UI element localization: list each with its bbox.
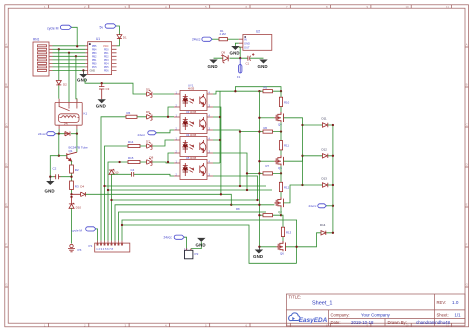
diode D4 <box>72 192 86 196</box>
net flag 24vcc (P2) <box>164 235 185 240</box>
resistor R2 <box>70 165 74 173</box>
svg-text:F1: F1 <box>237 75 241 79</box>
wire opto1 pin2 drop <box>168 107 174 117</box>
junction C3 <box>101 82 103 84</box>
diode D7 <box>147 142 153 149</box>
svg-text:EasyEDA: EasyEDA <box>299 317 328 324</box>
svg-text:R11: R11 <box>284 144 289 148</box>
svg-text:D6: D6 <box>146 110 150 114</box>
svg-text:D10: D10 <box>114 170 119 174</box>
wire cycle M to P1 pin1 <box>96 229 98 241</box>
svg-text:G: G <box>5 283 7 287</box>
IC U1 <box>85 42 116 75</box>
svg-text:D12: D12 <box>322 147 328 151</box>
svg-text:IN: IN <box>244 37 247 41</box>
diode D13 <box>323 183 328 187</box>
svg-text:PD6: PD6 <box>104 70 109 72</box>
net flag cycle M (top) <box>47 25 72 30</box>
wire R14 to D7 <box>140 140 174 146</box>
svg-text:D: D <box>5 163 7 167</box>
wire opto3 pin3 to gate2 column <box>213 153 247 190</box>
wire drops to relay <box>59 49 77 102</box>
junction rail 220 <box>219 116 221 118</box>
wire R6b row <box>240 131 281 133</box>
wire Q4 gate <box>259 117 274 119</box>
wire D13 anode <box>303 184 323 186</box>
svg-text:D4: D4 <box>80 185 84 189</box>
anode collector rail <box>302 125 304 185</box>
wire D11 anode <box>303 124 323 126</box>
svg-text:D: D <box>466 163 468 167</box>
wire U1 gnd to C3 rail <box>85 79 174 94</box>
wire relay coil to D3 row <box>56 129 77 134</box>
svg-text:B: B <box>5 83 7 87</box>
svg-text:1/1: 1/1 <box>455 312 462 317</box>
junction row3 <box>68 52 70 54</box>
svg-text:Q5: Q5 <box>278 166 282 170</box>
svg-text:2019-10-18: 2019-10-18 <box>351 320 374 325</box>
wire Q4 drain to D11 <box>284 118 303 125</box>
svg-text:A: A <box>466 43 468 47</box>
junction R5 <box>258 90 260 92</box>
ground Q6 <box>253 247 263 259</box>
frame ticks top/bottom <box>49 5 452 8</box>
svg-text:GND: GND <box>90 70 96 73</box>
svg-text:PD0: PD0 <box>104 49 109 51</box>
wire flag to R1 <box>212 38 219 40</box>
svg-text:R13: R13 <box>286 230 292 234</box>
resistor R15 <box>128 160 140 163</box>
svg-text:PD1: PD1 <box>104 53 109 55</box>
svg-text:F: F <box>5 243 7 247</box>
wire P1 pin5 rail to D16/C4 row <box>111 174 113 240</box>
junction U1 gnd row8 <box>82 69 84 71</box>
wire RN1 to U1 rows <box>53 46 86 71</box>
svg-text:A: A <box>5 43 7 47</box>
svg-text:P3: P3 <box>78 248 82 252</box>
wire D16 row to C4 <box>112 174 175 176</box>
svg-text:C3: C3 <box>106 87 110 91</box>
transistor Q4 <box>274 112 283 122</box>
svg-text:PB3: PB3 <box>92 53 97 55</box>
svg-text:RN1: RN1 <box>33 38 40 42</box>
wire Q5 drain to D12 <box>284 156 303 161</box>
wire P1 pin3 rail to R14 row <box>105 146 129 241</box>
svg-text:D9: D9 <box>222 51 226 55</box>
svg-text:D7: D7 <box>146 139 150 143</box>
svg-text:D8: D8 <box>150 155 154 159</box>
svg-text:Your Company: Your Company <box>361 312 391 317</box>
junction opto1 pin2 <box>167 116 169 118</box>
svg-text:R14: R14 <box>128 140 134 144</box>
transistor Q5 <box>274 155 283 165</box>
header P2 <box>184 248 199 259</box>
net flag cycle M (bottom) <box>72 227 96 233</box>
wire Q6 drain right <box>286 233 335 247</box>
junction row4 <box>75 55 77 57</box>
wire R6 to D6 <box>137 116 174 118</box>
svg-text:GND: GND <box>244 41 250 45</box>
svg-text:PD5: PD5 <box>104 67 109 69</box>
svg-text:C1: C1 <box>246 62 250 66</box>
junction C2 left <box>49 176 51 178</box>
junction C1 row <box>239 57 241 59</box>
wire flag to P2 pin1 <box>184 237 186 248</box>
svg-text:U1: U1 <box>96 37 100 41</box>
junction row2 <box>58 48 60 50</box>
svg-text:PB2: PB2 <box>92 56 97 58</box>
svg-text:Company:: Company: <box>331 312 350 317</box>
net flag 24vcc (relay) <box>38 132 56 137</box>
diode D11 <box>323 123 328 127</box>
net flag 24vcc (opto2) <box>138 131 157 137</box>
resistor R1 <box>219 38 228 41</box>
svg-text:cycle M: cycle M <box>72 228 83 232</box>
svg-text:GND: GND <box>45 189 55 194</box>
svg-text:E: E <box>466 203 468 207</box>
svg-text:R2: R2 <box>75 168 79 172</box>
svg-text:C2: C2 <box>53 166 57 170</box>
transistor Q6 <box>276 241 285 251</box>
svg-text:1 2 3 4 5 6 7 8: 1 2 3 4 5 6 7 8 <box>96 247 113 251</box>
svg-text:E: E <box>5 203 7 207</box>
port P3 <box>68 244 75 252</box>
svg-text:cycle M: cycle M <box>47 27 59 31</box>
wire opto right rail x220 <box>213 91 220 163</box>
wire P2 pin2 to gnd <box>191 242 201 249</box>
diode D1 <box>117 35 122 39</box>
svg-text:10: 10 <box>406 5 410 9</box>
wire U2 gnd pin <box>235 43 238 46</box>
ground P2 <box>196 238 206 248</box>
wire 24vcc to opto2 pin2 <box>156 130 174 133</box>
svg-text:Drawn By:: Drawn By: <box>388 320 407 325</box>
wire U2 out to C1 row <box>214 47 264 58</box>
svg-text:D14: D14 <box>320 223 326 227</box>
svg-text:R7: R7 <box>266 164 270 168</box>
svg-text:11: 11 <box>446 5 449 9</box>
wire Q1 base <box>59 155 67 157</box>
svg-text:R8: R8 <box>236 207 240 211</box>
resistor R11 <box>280 132 282 156</box>
svg-text:24vcc: 24vcc <box>138 133 146 137</box>
svg-text:D2: D2 <box>63 83 67 87</box>
svg-text:5v: 5v <box>100 26 104 30</box>
svg-text:GND: GND <box>196 242 206 247</box>
wire bus row 190 <box>108 189 272 191</box>
resistor R14 <box>128 144 140 147</box>
svg-text:PD4: PD4 <box>104 63 109 65</box>
svg-text:K1: K1 <box>84 112 88 116</box>
capacitor C3 <box>99 83 104 99</box>
svg-text:2.2M: 2.2M <box>220 32 227 36</box>
ground U2 <box>230 46 240 56</box>
wire base to C2 <box>50 156 71 177</box>
svg-text:D10: D10 <box>76 206 82 210</box>
svg-text:C4: C4 <box>131 168 135 172</box>
transistor Q2 <box>274 197 283 207</box>
wire 5v to D1 <box>116 26 119 46</box>
wire Q2 drain to D13 <box>284 185 303 203</box>
svg-text:24vcc: 24vcc <box>309 204 317 208</box>
svg-text:Q4: Q4 <box>278 123 282 127</box>
svg-text:D11: D11 <box>322 117 327 121</box>
capacitor C2 <box>54 174 61 179</box>
diode D8 <box>147 158 153 165</box>
resistor R13 <box>281 215 283 241</box>
resistor R12 <box>280 173 282 197</box>
svg-text:R3: R3 <box>75 185 79 189</box>
optocoupler U5 <box>174 156 213 180</box>
TITLE BLOCK <box>286 294 465 326</box>
resistor R6 <box>126 115 137 118</box>
svg-text:F: F <box>466 243 468 247</box>
resistor R3 <box>70 181 74 190</box>
resistor R8 <box>263 214 273 217</box>
svg-text:R5: R5 <box>264 85 268 89</box>
svg-text:24vcc: 24vcc <box>38 132 46 136</box>
svg-text:P2: P2 <box>195 252 199 256</box>
wire Q2 gate <box>231 204 274 206</box>
svg-text:GND: GND <box>96 104 106 109</box>
ground right of C1 <box>258 60 268 70</box>
relay K1 <box>55 99 82 129</box>
svg-text:PD2: PD2 <box>104 56 109 58</box>
diode D2 <box>56 81 61 85</box>
wire P1 pin2 rail to R6 row <box>101 117 126 241</box>
wire R8 row <box>259 214 281 216</box>
ground left of D9 <box>208 60 218 70</box>
ground under U1 <box>77 70 88 82</box>
svg-text:REV:: REV: <box>437 300 447 305</box>
connector P1 <box>89 241 130 252</box>
wire D3 row drops <box>59 134 77 156</box>
wire Q2 source down <box>280 207 282 215</box>
wire bus row 200 <box>112 199 258 201</box>
svg-text:R10: R10 <box>284 100 290 104</box>
svg-text:Q1: Q1 <box>69 149 73 153</box>
junction on R15 row <box>118 161 120 163</box>
diode D3 <box>65 132 70 136</box>
junction D3 right <box>76 133 78 135</box>
junction row1 cycleM <box>76 45 78 47</box>
svg-text:GND: GND <box>208 64 218 69</box>
wire bus row 225 <box>122 225 297 263</box>
wire opto2 pin3 to gate1 column <box>213 130 240 186</box>
svg-text:4N35: 4N35 <box>188 87 195 91</box>
diode D9 <box>221 55 228 64</box>
diode D14 <box>321 231 326 235</box>
svg-text:TITLE:: TITLE: <box>289 294 302 299</box>
wire bus row 186 <box>105 185 267 187</box>
svg-text:D1: D1 <box>123 36 127 40</box>
svg-text:PD3: PD3 <box>104 60 109 62</box>
zener D10 <box>69 197 74 208</box>
svg-text:Sheet_1: Sheet_1 <box>312 300 333 306</box>
svg-text:chandranindhu48: chandranindhu48 <box>416 320 450 325</box>
wire cycle M to row1 <box>72 27 78 46</box>
svg-text:C: C <box>5 123 7 127</box>
wire Q1 emitter to R2 <box>71 161 73 194</box>
svg-text:Sheet:: Sheet: <box>437 312 449 317</box>
wire R7 row <box>247 172 281 174</box>
wire bus row 220 <box>122 220 297 263</box>
svg-text:GND: GND <box>253 254 263 259</box>
wire R15 to D8 <box>140 162 174 163</box>
ground under C3 <box>96 99 106 109</box>
fuse F1 <box>237 58 242 79</box>
svg-text:U2: U2 <box>256 30 260 34</box>
svg-text:Date:: Date: <box>331 320 341 325</box>
optocoupler U3 <box>174 110 213 134</box>
wire Q4 source down <box>280 122 282 131</box>
svg-text:24vcc: 24vcc <box>164 236 173 240</box>
svg-text:PB5: PB5 <box>92 46 97 48</box>
regulator U2 <box>239 30 272 51</box>
resistor R6b <box>263 130 273 133</box>
svg-text:GND: GND <box>258 64 268 69</box>
EasyEDA logo <box>289 313 328 324</box>
net flag 24vcc (U2) <box>192 37 212 42</box>
wire bus row 212 <box>119 212 267 241</box>
connector RN1 <box>33 42 53 76</box>
svg-text:PB4: PB4 <box>92 49 97 51</box>
transistor Q1 <box>67 152 77 161</box>
wire opto4 pin3 to gate4 column <box>213 176 258 200</box>
ground near C2 <box>45 177 55 194</box>
cathode rail <box>328 125 333 233</box>
resistor R5 <box>263 90 273 93</box>
capacitor C1 <box>248 53 255 60</box>
diode D6 <box>147 113 153 120</box>
svg-text:OUT: OUT <box>244 45 250 49</box>
svg-text:PB1: PB1 <box>92 60 97 62</box>
junction R2/R3 <box>70 176 72 178</box>
wire bus row 206 <box>115 205 231 241</box>
junction D4 row <box>70 193 72 195</box>
junction D3 left <box>58 133 60 135</box>
svg-text:R15: R15 <box>128 156 134 160</box>
junction bus rows <box>103 185 105 187</box>
junction opto3 pin2 <box>167 161 169 163</box>
svg-text:G: G <box>466 283 468 287</box>
svg-text:VCC: VCC <box>103 44 109 48</box>
optocoupler U4 <box>174 133 213 157</box>
net flag 24vcc (rail) <box>309 204 327 208</box>
net flag 5v <box>100 24 117 30</box>
svg-text:Q2: Q2 <box>278 210 282 214</box>
wire D4 to bus row 194.5 <box>86 194 232 205</box>
wire opto1 pin4 top rail <box>213 87 281 94</box>
junction Q1 base <box>58 155 60 157</box>
left gate rail <box>258 91 260 248</box>
svg-text:Q6: Q6 <box>280 252 284 256</box>
svg-text:GND: GND <box>230 51 240 56</box>
svg-text:B: B <box>466 83 468 87</box>
diode D5 <box>146 90 153 97</box>
resistor R7 <box>263 172 273 175</box>
optocoupler UY1 <box>174 84 213 111</box>
svg-text:PC5: PC5 <box>92 67 97 69</box>
svg-text:GND: GND <box>77 78 87 83</box>
wire Q6 gate/source row <box>259 246 276 248</box>
wire R1 to U2 <box>228 38 239 40</box>
wire opto1 pin3 to gate3 column <box>213 107 221 194</box>
svg-text:P1: P1 <box>89 244 93 248</box>
svg-text:R12: R12 <box>284 185 290 189</box>
wire D10 to P3 <box>71 208 73 243</box>
frame ticks left/right <box>5 47 8 287</box>
resistor R10 <box>280 91 282 112</box>
svg-text:D13: D13 <box>322 177 328 181</box>
wire R5 row <box>259 90 281 92</box>
wire Q5 source down <box>280 166 282 174</box>
zener D16 <box>109 169 114 174</box>
svg-text:1.0: 1.0 <box>452 300 459 305</box>
svg-text:R6: R6 <box>127 111 131 115</box>
wire P1 pin4 rail to R15 row <box>108 162 128 241</box>
wire Q5 gate <box>259 160 274 162</box>
capacitor C4 <box>132 172 134 177</box>
svg-text:C: C <box>466 123 468 127</box>
wire flag to rail <box>326 205 333 207</box>
svg-text:R6: R6 <box>264 126 268 130</box>
wire opto3 pin2 drop <box>168 153 174 162</box>
svg-text:D5: D5 <box>146 87 150 91</box>
diode D12 <box>323 154 328 158</box>
svg-text:PB0: PB0 <box>92 63 97 65</box>
svg-text:24vcc: 24vcc <box>192 38 201 42</box>
wire D12 anode <box>303 155 323 157</box>
